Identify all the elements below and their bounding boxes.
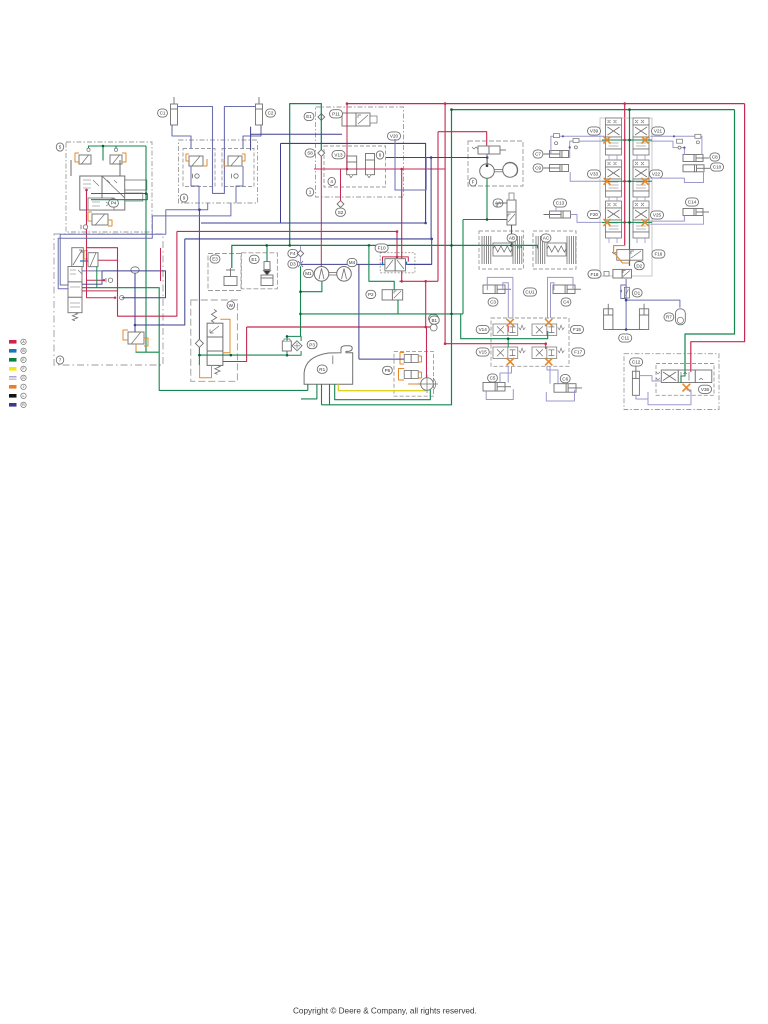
navy box7 gauge down [134, 273, 136, 332]
svg-text:W: W [229, 303, 234, 308]
green wire box7 bottom [136, 351, 160, 353]
pump circle F left [480, 164, 495, 179]
red line through V14 box [445, 343, 546, 345]
svg-text:D2: D2 [636, 263, 642, 268]
navy bypass loop D1 [621, 285, 627, 299]
label C7 [533, 150, 543, 158]
label C1 [158, 109, 168, 117]
orange pilot box9 left [186, 154, 189, 161]
orange X right y222.4 [642, 219, 648, 225]
svg-text:4: 4 [330, 179, 333, 184]
svg-text:F: F [472, 180, 475, 185]
wire C2 to box 9 [243, 125, 261, 149]
solenoid valve P11 [342, 113, 377, 126]
purple C12 to valve [639, 376, 661, 381]
svg-text:6: 6 [379, 153, 382, 158]
legend swatch E [9, 358, 17, 362]
label R7 [664, 313, 674, 321]
filter canister 2 [366, 154, 375, 178]
diamond junction W [195, 339, 203, 347]
wire box9 left down [191, 166, 199, 210]
cylinder C7 [544, 151, 569, 158]
purple to C5 a [507, 366, 509, 382]
tank leg 2 drain [301, 384, 317, 399]
red wrap F10 right [397, 257, 408, 262]
label D2 [634, 262, 644, 270]
check valve pair top of box 5 right [110, 155, 122, 164]
filter canister 1 [347, 156, 357, 178]
orange loop P6 upper [400, 353, 404, 365]
red stub V14 [507, 326, 509, 332]
svg-text:5: 5 [59, 145, 62, 150]
gauge circle box 7 [131, 267, 139, 273]
cylinder C9 [544, 165, 569, 172]
check valve box9 left [193, 174, 200, 178]
svg-text:F15: F15 [573, 327, 581, 332]
label C6 [560, 375, 570, 383]
label C2 [266, 109, 276, 117]
wire box9 right down [236, 166, 243, 203]
green stub AB [520, 245, 522, 248]
valve bank outer frame [600, 118, 652, 276]
navy L stack to gauge line [82, 271, 102, 284]
red check line b [87, 280, 116, 298]
check valve box 7 a [106, 278, 113, 282]
sub-box left in box 9 [183, 149, 215, 187]
legend circle A [21, 339, 26, 344]
purple C4 inner loop [551, 283, 554, 318]
valve F19 [604, 269, 632, 278]
check valve box9 right [232, 174, 239, 178]
label V39 [587, 127, 600, 135]
label C12 [630, 358, 643, 366]
label 4 [328, 177, 336, 185]
valve in box 9 right [228, 156, 242, 166]
label F17 [572, 348, 585, 356]
legend circle F [21, 366, 26, 371]
valve section right bank row 1 [633, 118, 649, 155]
label P4 [109, 199, 119, 207]
tank leg 1 to box7 return [307, 384, 309, 390]
purple bank to C14 b [650, 216, 703, 225]
purple bank to C8 outer [650, 136, 702, 154]
label C5 [488, 374, 498, 382]
cylinder C1 [171, 97, 178, 125]
orange loop P6 upper right [418, 356, 421, 362]
navy vertical x431 [430, 158, 432, 239]
red vertical x445 [444, 104, 446, 344]
svg-text:V25: V25 [653, 213, 662, 218]
valve V15 [493, 347, 525, 359]
svg-text:F4: F4 [290, 251, 296, 256]
purple stub F4 [300, 245, 302, 250]
valve section right bank row 2 [633, 160, 649, 197]
svg-text:Copyright © Deere & Company, a: Copyright © Deere & Company, all rights … [293, 1007, 477, 1016]
label C3 [488, 298, 498, 306]
navy line to P11 [251, 127, 342, 150]
tank leg 5 to fan pump [335, 384, 431, 400]
svg-text:V33: V33 [590, 172, 599, 177]
red wrap F10 left [383, 257, 398, 262]
navy feed to W with diamond [198, 210, 200, 340]
cylinder C11 left [604, 304, 613, 330]
valve P2 [382, 290, 403, 300]
label C11 [619, 334, 632, 342]
svg-text:V21: V21 [654, 129, 663, 134]
pilot valve with orange cap box 7 [88, 253, 98, 267]
valve box F10 [380, 253, 415, 273]
svg-text:E3: E3 [212, 257, 218, 262]
valve box C12 outer [624, 354, 719, 410]
label R1 [317, 365, 327, 373]
label V25 [650, 211, 663, 219]
label P3 [307, 341, 317, 349]
svg-text:9: 9 [183, 196, 186, 201]
legend swatch J [9, 385, 17, 389]
svg-text:P2: P2 [368, 292, 374, 297]
relief valve body in box W [207, 323, 223, 365]
svg-text:C10: C10 [713, 165, 722, 170]
orange junction X bottom-right V15 [546, 359, 552, 365]
purple bank to C10 [650, 171, 703, 182]
purple to C5 b [500, 366, 512, 382]
navy trunk y223 [201, 222, 426, 224]
valve V36 [656, 370, 712, 383]
diamond S8 [318, 150, 325, 157]
throttle valve with orange loops box 7 bottom [128, 332, 144, 344]
red vertical valve bank [624, 104, 626, 246]
label E3 [210, 255, 220, 263]
valve section right bank row 3 [633, 201, 649, 238]
label F4 [288, 249, 298, 257]
svg-text:V14: V14 [479, 327, 488, 332]
legend circle J [21, 384, 26, 389]
orange pilot box9 right b [224, 159, 228, 166]
legend swatch B [9, 349, 17, 353]
red filter line [314, 168, 445, 170]
svg-text:R7: R7 [666, 315, 672, 320]
green trunk top horizontal [452, 109, 735, 111]
navy filter box to pump F [386, 157, 487, 159]
sub-box right in box 9 [222, 149, 254, 187]
pump M4 [337, 267, 352, 282]
valve box V36 inner [656, 364, 714, 396]
svg-text:G: G [22, 376, 25, 380]
legend circle E [21, 357, 26, 362]
purple to C6 b [549, 366, 551, 384]
svg-text:C4: C4 [563, 300, 569, 305]
slate staircase box9 right output [58, 203, 231, 288]
orange pilot box9 right [242, 154, 245, 161]
green to P2 valve [369, 245, 394, 289]
svg-text:C14: C14 [688, 200, 697, 205]
legend swatch A [9, 340, 17, 344]
red trunk y327 [247, 326, 437, 328]
label M1 [303, 269, 313, 277]
label V13 [332, 151, 345, 159]
slate below F19 [625, 279, 627, 330]
wire box5 b [119, 160, 121, 176]
diamond F4 [297, 250, 303, 256]
orange loop throttle b [144, 338, 148, 346]
svg-text:M4: M4 [349, 260, 356, 265]
label AA [493, 199, 503, 207]
svg-text:E1: E1 [251, 257, 257, 262]
label F18 [588, 270, 601, 278]
pump shaft F [495, 170, 503, 172]
red horizontal y281 [399, 280, 438, 282]
green loop P3 top [287, 336, 301, 341]
navy drop to P6 from y264 [358, 264, 360, 359]
accumulator R7 [676, 309, 686, 325]
slate staircase box9 left output [60, 203, 208, 285]
valve in box 9 left [189, 156, 203, 166]
enclosure box 7 [54, 234, 163, 365]
check valve glyphs C8 lines [677, 134, 701, 149]
green stub into cooler AB [517, 245, 519, 248]
wire C1-C2 loop [178, 107, 256, 194]
label 6 [376, 151, 384, 159]
diamond E1 [318, 114, 325, 121]
check valve pair top of box 5 [79, 155, 91, 164]
slate to accumulator R7 [626, 300, 680, 308]
cylinder C10 [683, 165, 710, 172]
green loop under pump M1 [301, 281, 322, 292]
stub relief to pump [486, 154, 488, 164]
orange loop b5 left [75, 153, 79, 162]
purple C5 bottom U [486, 389, 513, 400]
gauge circle B1 [430, 324, 437, 331]
diamond strainer P3 [292, 341, 302, 351]
label M7 [429, 314, 439, 322]
bank inter-row connector stubs [609, 155, 645, 243]
legend circle L [21, 393, 26, 398]
green cross line bank y140 [602, 139, 652, 141]
green drop box5 [102, 146, 104, 161]
wire C1 to box 9 [172, 125, 191, 149]
stacked valve block box 7 [68, 267, 82, 313]
pump circle F right [503, 163, 518, 178]
orange X right y140 [642, 137, 648, 143]
slate stub into pump F [486, 158, 488, 164]
svg-text:E1: E1 [306, 114, 312, 119]
cylinder C12 [632, 366, 639, 395]
green to AA valve [463, 219, 516, 221]
green out of valve block 2 [91, 194, 147, 200]
purple C3 inner loop to V14 [503, 283, 509, 318]
cooler box AB [479, 231, 524, 269]
navy trunk y239 [185, 238, 432, 240]
slate V20 drop [395, 139, 426, 190]
svg-text:CU1: CU1 [525, 290, 535, 295]
label 5 [56, 143, 64, 151]
svg-text:C13: C13 [556, 201, 565, 206]
cylinder C11 right [639, 304, 648, 330]
svg-text:P3: P3 [309, 342, 315, 347]
red branch stack to riser [82, 290, 118, 292]
label E1 circle top [304, 112, 314, 120]
orange junction X bottom-left V15 [507, 359, 513, 365]
label P11 [329, 110, 342, 118]
svg-text:P6: P6 [385, 368, 391, 373]
orange cap wire [84, 251, 88, 259]
green wire box7 to tank [159, 352, 308, 390]
svg-text:D1: D1 [634, 291, 640, 296]
navy gauge loop [102, 271, 166, 298]
diamond M7 [430, 324, 437, 331]
label 9 [180, 194, 188, 202]
hydraulic tank R1 [304, 346, 353, 385]
green top left segment down to S8 [290, 104, 322, 246]
valve F10 [385, 259, 406, 271]
green drop from pilot valve [96, 266, 98, 287]
green y313 [301, 313, 464, 315]
svg-text:C1: C1 [160, 111, 166, 116]
orange loop throttle a [123, 330, 128, 340]
valve section left bank row 3 [606, 201, 622, 238]
label S2 [336, 208, 346, 216]
svg-text:C7: C7 [535, 152, 541, 157]
svg-text:F: F [22, 367, 24, 371]
orange junction X top-right V14 [546, 319, 552, 325]
navy into P6 [359, 358, 404, 360]
purple C12 lower [636, 392, 648, 399]
orange loop b5 right [122, 153, 126, 162]
green below P2 [397, 300, 399, 314]
orange X left y140 [604, 137, 610, 143]
solenoid valve P6 lower [404, 371, 418, 379]
svg-text:V39: V39 [590, 129, 599, 134]
svg-text:L: L [23, 394, 25, 398]
label P2 [366, 290, 376, 298]
legend swatch R [9, 403, 17, 407]
label V33 [587, 170, 600, 178]
main control valve block P4 [80, 176, 147, 210]
svg-text:F10: F10 [378, 246, 386, 251]
svg-text:P4: P4 [111, 201, 117, 206]
pilot loop D1 [624, 287, 629, 298]
green trunk right down to V36 [685, 110, 735, 369]
svg-text:1: 1 [309, 190, 312, 195]
blue pilot segment [80, 260, 88, 262]
filter enclosure inner [324, 146, 386, 187]
orange pilot box9 left b [203, 159, 207, 166]
orange loop W bottom [200, 365, 212, 378]
purple bank to C8 inner [650, 141, 684, 155]
legend swatch F [9, 367, 17, 371]
cylinder C13 [544, 211, 571, 218]
green long vertical mid [322, 110, 452, 405]
svg-text:C2: C2 [268, 111, 274, 116]
green vertical valve bank [629, 110, 631, 266]
valve section left bank row 1 [606, 118, 622, 155]
purple C7 left pipe to bank [551, 136, 605, 154]
spring above relief valve W [211, 310, 216, 323]
cylinder C8 [683, 155, 709, 162]
green stub into cooler AC [537, 245, 539, 248]
green stub AC [535, 245, 537, 248]
wire box5 a [70, 160, 72, 176]
cylinder C2 [256, 97, 263, 125]
green through W valve [199, 354, 246, 356]
orange X left y222.4 [604, 219, 610, 225]
svg-text:S2: S2 [338, 210, 344, 215]
red branch pilot to riser [98, 259, 117, 261]
diamond S2 [337, 201, 344, 208]
green D3 down to P3 [300, 266, 302, 336]
check valve box 7 b [117, 296, 124, 300]
navy y264 to D3 [301, 263, 432, 265]
svg-text:C9: C9 [535, 166, 541, 171]
filter enclosure outer [316, 107, 404, 197]
svg-text:V36: V36 [701, 387, 710, 392]
actuator in sensor box E1 [261, 262, 273, 286]
fan pump box P6 [394, 352, 434, 397]
accumulator in box E3 [224, 268, 237, 286]
purple stub D3 [300, 257, 302, 265]
cooler core AB [482, 236, 522, 264]
svg-text:7: 7 [59, 358, 62, 363]
label S8 [305, 149, 315, 157]
purple V36 return loop [648, 390, 691, 405]
red feed into W valve [223, 327, 247, 362]
cylinder C6 [554, 384, 582, 393]
valve F18 [0, 0, 1, 1]
label V22 [649, 170, 662, 178]
svg-text:J: J [23, 385, 25, 389]
green vertical x461 [462, 220, 464, 314]
green below AA [511, 225, 513, 245]
label AB [507, 234, 517, 242]
label C8 [710, 153, 720, 161]
svg-text:S8: S8 [307, 151, 313, 156]
orange loop P6 lower right [418, 372, 421, 378]
accumulator box E3 [208, 254, 241, 291]
pump M1 [314, 267, 329, 282]
navy trunk y143 [281, 143, 426, 223]
tank leg 3 [321, 384, 323, 405]
green drop into E1 box [266, 245, 268, 261]
label P6 [382, 366, 392, 374]
green jumper box5 top [89, 146, 117, 150]
green trunk y245 [232, 245, 538, 268]
valve F15 section [532, 324, 564, 336]
red check line a [87, 248, 105, 281]
proportional valve box 7 top-left [72, 248, 84, 267]
tank leg 4 [329, 384, 331, 405]
cylinder C4 [553, 285, 581, 294]
purple C9 to bank row2 [570, 172, 604, 181]
purple C3 outer loop to V14 [487, 277, 513, 318]
label F [469, 178, 477, 186]
navy drop to F10 right [408, 239, 431, 265]
check valve bottom box 5 [81, 225, 88, 229]
yellow return line [338, 384, 425, 391]
green cross line bank y181.3 [602, 180, 652, 182]
orange loop W right [220, 319, 230, 352]
cylinder C5 [483, 383, 511, 392]
orange X right y181.3 [642, 178, 648, 184]
valve V14 [493, 324, 525, 336]
green box5 right vertical [145, 146, 147, 352]
navy vertical x280 [280, 143, 282, 223]
svg-text:F18: F18 [591, 272, 599, 277]
label D1 [632, 289, 642, 297]
orange junction X top-left V14 [507, 319, 513, 325]
label C13 [553, 199, 566, 207]
cooler box AC [533, 231, 576, 269]
green into V14 box [461, 314, 548, 339]
